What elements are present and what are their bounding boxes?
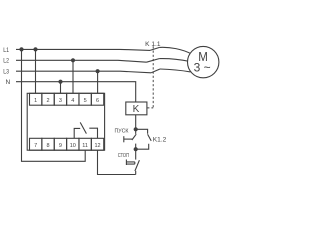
contact K1.1 blade phase L2 <box>147 59 160 63</box>
internal relay contact blade <box>80 122 86 133</box>
terminal 1 <box>30 93 42 105</box>
svg-text:2: 2 <box>47 98 50 104</box>
svg-text:12: 12 <box>94 143 100 149</box>
internal relay contact hook terminal 12 <box>89 128 97 138</box>
dashed linkage K1.1 to coil K <box>147 46 153 108</box>
junction start node <box>134 127 138 131</box>
pushbutton PUSK actuator cap <box>123 136 125 142</box>
svg-text:K: K <box>133 104 140 115</box>
pushbutton STOP actuator cap <box>125 160 127 166</box>
motor M1 circle <box>188 46 219 77</box>
pushbutton STOP top lead <box>135 149 137 159</box>
terminal 12 <box>91 138 103 150</box>
junction stop node <box>134 147 138 151</box>
contact K1.1 blade phase L1 <box>150 47 160 50</box>
relay device box <box>27 93 104 150</box>
contact K1.2 top wire <box>136 129 148 134</box>
contact K1.2 blade <box>148 134 152 141</box>
contact K1.2 bottom wire <box>136 144 149 149</box>
pushbutton PUSK bottom lead <box>135 144 137 150</box>
svg-text:3: 3 <box>59 98 62 104</box>
wire phase L3 to motor <box>160 69 191 72</box>
terminal 10 <box>67 138 79 150</box>
wire L3 drop to terminal 6 <box>97 71 99 93</box>
terminal 8 <box>42 138 54 150</box>
svg-text:3 ~: 3 ~ <box>194 61 211 75</box>
svg-text:K1.2: K1.2 <box>153 137 167 144</box>
coil K box <box>126 102 147 115</box>
wire L1 rail <box>16 49 150 50</box>
junction L3 to terminal 6 <box>96 69 100 73</box>
wire phase L1 to motor <box>160 47 192 54</box>
terminal 2 <box>42 93 54 105</box>
svg-text:N: N <box>6 79 11 86</box>
terminal 5 <box>79 93 91 105</box>
svg-text:L1: L1 <box>3 47 9 54</box>
wire L2 drop to terminal 4 <box>72 60 74 93</box>
wire phase L2 to motor <box>159 59 190 62</box>
svg-text:11: 11 <box>82 143 88 149</box>
svg-text:9: 9 <box>59 143 62 149</box>
terminal 7 <box>30 138 42 150</box>
svg-text:L2: L2 <box>3 58 9 65</box>
terminal 3 <box>54 93 66 105</box>
terminal 9 <box>54 138 66 150</box>
svg-text:10: 10 <box>70 143 76 149</box>
terminal 11 <box>79 138 91 150</box>
wire N rail into coil K top <box>16 82 136 102</box>
svg-text:7: 7 <box>34 143 37 149</box>
terminal 4 <box>67 93 79 105</box>
pushbutton STOP blade <box>135 160 140 171</box>
wire coil K to start node <box>135 115 137 130</box>
internal relay contact lead terminal 10 <box>74 128 80 138</box>
pushbutton PUSK top lead <box>135 129 137 134</box>
wire L2 rail <box>16 60 147 62</box>
wire N drop to terminal 3 <box>60 82 62 94</box>
pushbutton PUSK blade <box>132 134 136 140</box>
svg-text:1: 1 <box>34 98 37 104</box>
contact K1.1 blade phase L3 <box>151 69 160 73</box>
pushbutton STOP bottom lead <box>135 171 137 175</box>
terminal 6 <box>91 93 103 105</box>
wire L1 loop to terminal 11 <box>22 49 86 161</box>
svg-text:5: 5 <box>84 98 87 104</box>
junction L1 left <box>19 47 23 51</box>
junction L1 to terminal 1 <box>33 47 37 51</box>
svg-text:8: 8 <box>47 143 50 149</box>
wire L3 rail <box>16 71 151 73</box>
svg-text:4: 4 <box>71 98 74 104</box>
junction L2 to terminal 4 <box>71 58 75 62</box>
pushbutton PUSK actuator rod <box>124 138 133 140</box>
svg-text:L3: L3 <box>3 69 9 76</box>
svg-text:СТОП: СТОП <box>118 153 129 159</box>
wire L1 drop to terminal 1 <box>35 49 37 93</box>
svg-text:ПУСК: ПУСК <box>115 128 130 134</box>
svg-text:6: 6 <box>96 98 99 104</box>
pushbutton STOP actuator rod <box>126 162 134 164</box>
wire terminal 12 to stop button <box>98 150 136 174</box>
junction N to terminal 3 <box>58 80 62 84</box>
